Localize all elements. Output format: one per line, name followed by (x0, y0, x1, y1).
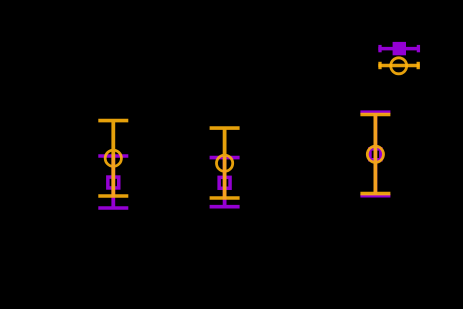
marker square g2 purple (219, 177, 230, 188)
errorbar series B (purple) group 1 (98, 156, 128, 208)
cap legend purple right (417, 45, 420, 52)
marker circle g2 orange (217, 155, 233, 171)
wire vertical error line g2 purple (223, 158, 227, 207)
wire vertical error line g3 purple (373, 112, 377, 196)
cap bottom g3 purple (360, 194, 390, 198)
cap top g1 purple (98, 154, 128, 158)
errorbar series A (orange) group 3 (360, 115, 390, 194)
cap bottom g1 orange (98, 194, 128, 198)
errorbar series B (purple) group 3 (360, 112, 390, 196)
marker square g1 purple (108, 177, 119, 188)
wire vertical error line g1 purple (111, 156, 115, 208)
wire vertical error line g1 orange (111, 121, 115, 196)
errorbar series A (orange) group 1 (98, 121, 128, 196)
wire vertical error line g3 orange (373, 115, 377, 194)
errorbar series A (orange) group 2 (210, 128, 240, 198)
cap top g1 orange (98, 119, 128, 123)
cap legend purple left (378, 45, 381, 52)
cap legend orange left (378, 62, 381, 69)
cap bottom g1 purple (98, 206, 128, 210)
marker circle g1 orange (105, 150, 121, 166)
wire legend purple hline (378, 47, 420, 51)
cap top g2 purple (210, 156, 240, 160)
cap top g2 orange (210, 126, 240, 130)
errorbar series B (purple) group 2 (210, 158, 240, 207)
marker legend purple square filled (393, 42, 406, 55)
cap bottom g3 orange (360, 192, 390, 196)
wire vertical error line g2 orange (223, 128, 227, 198)
cap legend orange right (417, 62, 420, 69)
cap top g3 orange (360, 113, 390, 117)
marker legend orange circle (391, 58, 407, 74)
legend entry purple (378, 42, 420, 55)
cap bottom g2 orange (210, 196, 240, 200)
legend entry orange (378, 58, 419, 74)
cap top g3 purple (360, 110, 390, 114)
marker square g3 purple (370, 149, 381, 160)
cap bottom g2 purple (210, 205, 240, 209)
wire legend orange hline (378, 64, 419, 68)
marker circle g3 orange (367, 146, 383, 162)
